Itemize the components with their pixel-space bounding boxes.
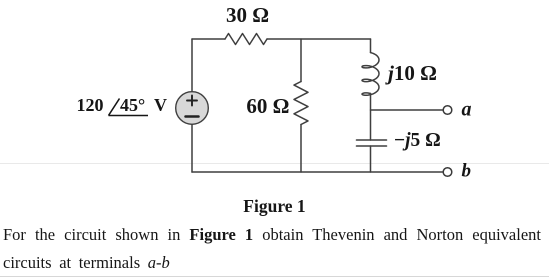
wire middle branch upper (300, 39, 302, 82)
svg-text:j10 Ω: j10 Ω (385, 61, 437, 85)
svg-text:−j5 Ω: −j5 Ω (394, 130, 441, 151)
caption Figure 1 (0, 196, 549, 217)
wire right branch top (370, 39, 372, 53)
svg-text:60 Ω: 60 Ω (246, 94, 289, 118)
problem statement paragraph (3, 221, 541, 276)
svg-text:V: V (154, 95, 167, 115)
wire middle branch lower (300, 125, 302, 173)
wire left vertical above source (191, 39, 193, 92)
terminal a circle (443, 106, 452, 115)
resistor R 60ohm zigzag (294, 82, 308, 125)
svg-text:30 Ω: 30 Ω (226, 3, 269, 27)
voltage source VS circle (176, 92, 209, 125)
svg-text:b: b (462, 161, 472, 182)
inductor L j10ohm coil (362, 53, 379, 96)
voltage source minus sign (186, 115, 199, 118)
resistor R 30ohm zigzag (225, 34, 267, 45)
capacitor C -j5ohm plates (357, 140, 387, 146)
voltage source plus sign (187, 96, 197, 106)
wire right branch below capacitor (370, 146, 372, 172)
svg-text:45°: 45° (120, 95, 145, 115)
wire bottom horizontal (192, 171, 443, 173)
wire right branch below inductor (370, 94, 372, 141)
svg-text:a: a (462, 99, 472, 121)
angle symbol for phasor (109, 99, 149, 116)
wire top-right segment (267, 38, 371, 40)
wire left vertical below source (191, 125, 193, 173)
wire top-left segment (192, 38, 225, 40)
wire to terminal a (371, 109, 444, 111)
terminal b circle (443, 168, 452, 177)
svg-text:120: 120 (77, 95, 104, 115)
